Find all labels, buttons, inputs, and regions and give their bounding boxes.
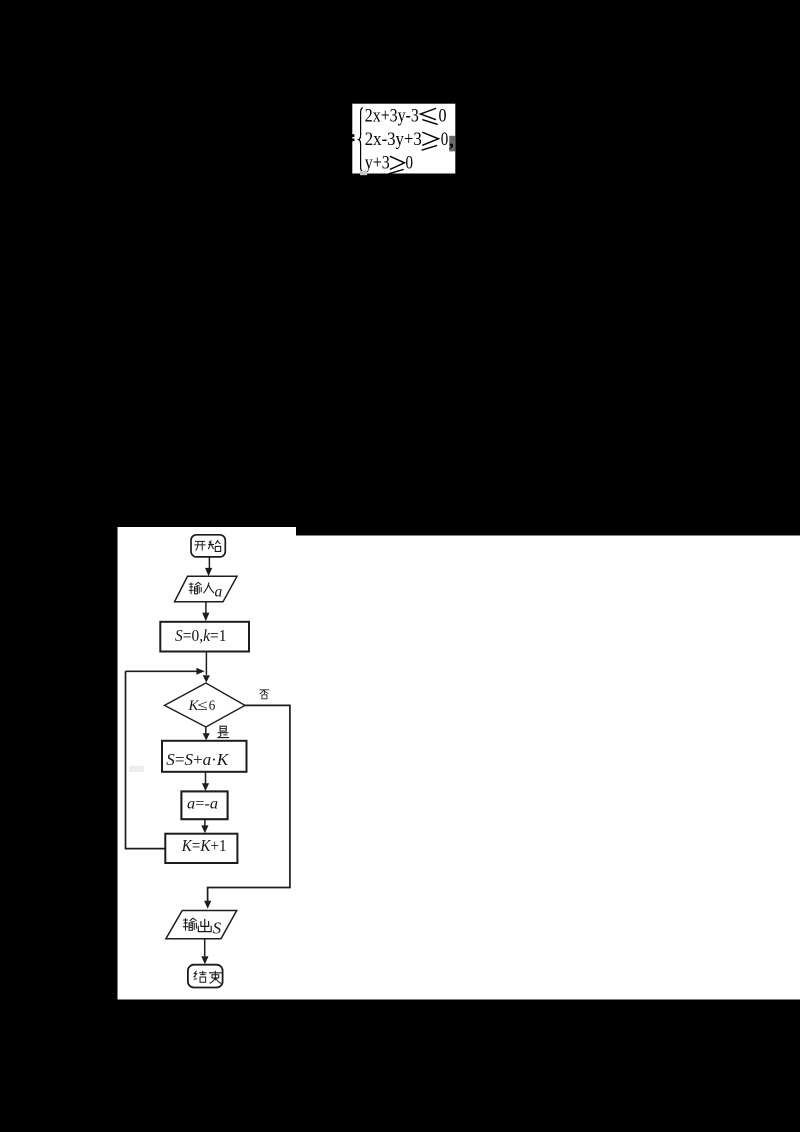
svg-text:a=-a: a=-a — [187, 795, 218, 812]
svg-text:6: 6 — [209, 698, 216, 714]
svg-text:2x-3y+3: 2x-3y+3 — [365, 129, 422, 150]
svg-text:a: a — [215, 583, 223, 600]
svg-text:0: 0 — [441, 129, 449, 150]
svg-text:S=0,k=1: S=0,k=1 — [175, 626, 227, 645]
svg-text:K=K+1: K=K+1 — [181, 836, 227, 855]
svg-text:,: , — [449, 131, 454, 152]
svg-text:0: 0 — [439, 105, 447, 126]
svg-text:y+3: y+3 — [365, 153, 390, 174]
svg-text:S=S+a·K: S=S+a·K — [166, 750, 229, 769]
svg-text:≤: ≤ — [197, 698, 208, 714]
svg-text:S: S — [213, 918, 222, 937]
svg-text:2x+3y-3: 2x+3y-3 — [365, 105, 419, 126]
svg-text:0: 0 — [406, 153, 414, 174]
